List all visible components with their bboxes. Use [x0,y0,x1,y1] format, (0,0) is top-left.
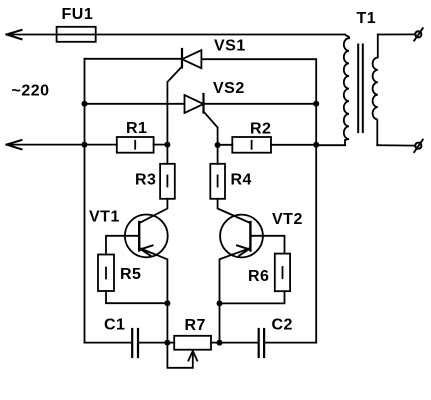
svg-text:T1: T1 [357,10,377,27]
transformer T1 core [358,45,363,133]
wire R7 to C2 [211,342,258,344]
resistor R6 [275,254,290,292]
wire bottom left [85,342,132,344]
wire secondary top to terminal [378,33,416,35]
capacitor C1 [132,329,138,357]
wire R1 to node A [154,144,168,146]
wire R5 to emitter node [106,291,167,303]
junction bottom left [164,340,170,346]
potentiometer R7 [174,336,211,350]
svg-text:VS1: VS1 [214,38,246,55]
thyristor VS1 [182,49,201,68]
wire emitter node down [166,303,168,342]
thyristor VS2 [185,94,204,113]
svg-text:R2: R2 [250,120,271,137]
junction left edge mid [82,101,88,107]
svg-text:C2: C2 [272,317,293,334]
wire emitter node down right [219,303,221,342]
wire top edge to VS1 cathode [85,58,183,60]
wire primary bottom to right edge [316,144,345,146]
node D junction [217,300,223,306]
terminal bottom [414,140,423,152]
wire node B to R2 [218,144,233,146]
wire C2 to bottom right corner [265,342,316,344]
wire R6 to emitter node [220,291,285,303]
svg-text:R6: R6 [248,268,269,285]
svg-text:R1: R1 [126,120,147,137]
wire mid line to VS2 anode [85,103,185,105]
wire VS1 gate [167,67,182,145]
transistor VT1 [125,199,168,303]
junction right edge low [313,142,319,148]
svg-text:R5: R5 [120,266,141,283]
resistor R5 [98,255,114,292]
wire R2 to right edge [271,144,316,146]
terminal top [414,28,423,40]
svg-text:VT2: VT2 [272,211,303,228]
transistor VT2 [218,199,263,304]
wire C1 to R7 [139,342,174,344]
svg-text:VS2: VS2 [213,80,245,97]
svg-text:FU1: FU1 [62,6,94,23]
node C junction [164,300,170,306]
node A junction [164,142,170,148]
resistor R4 [210,164,225,199]
wire node B to R4 [217,145,219,164]
wire secondary bottom to terminal [377,144,415,146]
transformer T1 secondary winding [373,35,378,146]
fuse FU1 [57,27,96,42]
arrow left top [7,30,22,39]
junction left edge low [82,142,88,148]
svg-text:~220: ~220 [12,83,50,100]
transformer T1 primary winding [344,35,349,146]
wire VS1 anode to right edge [201,59,316,342]
svg-text:C1: C1 [104,317,125,334]
svg-text:R3: R3 [135,172,156,189]
wire VS2 cathode to right edge [204,103,317,105]
capacitor C2 [259,329,264,357]
wire VT1 base to R5 [106,236,139,255]
arrow left mid [7,140,22,149]
wire node A to R3 [166,145,168,164]
svg-text:R4: R4 [231,172,252,189]
wire VT2 base to R6 [250,236,284,254]
R7 wiper arrow [167,343,197,368]
wire top mains line [7,34,345,36]
svg-text:R7: R7 [185,317,206,334]
node B junction [215,142,221,148]
wire left edge of bridge [84,59,86,343]
resistor R1 [117,137,154,153]
junction bottom right [217,340,223,346]
resistor R3 [160,164,175,199]
junction right edge mid [313,101,319,107]
svg-text:VT1: VT1 [89,209,120,226]
resistor R2 [232,137,271,153]
wire VS2 gate [204,112,218,146]
wire mains low line [7,144,117,146]
